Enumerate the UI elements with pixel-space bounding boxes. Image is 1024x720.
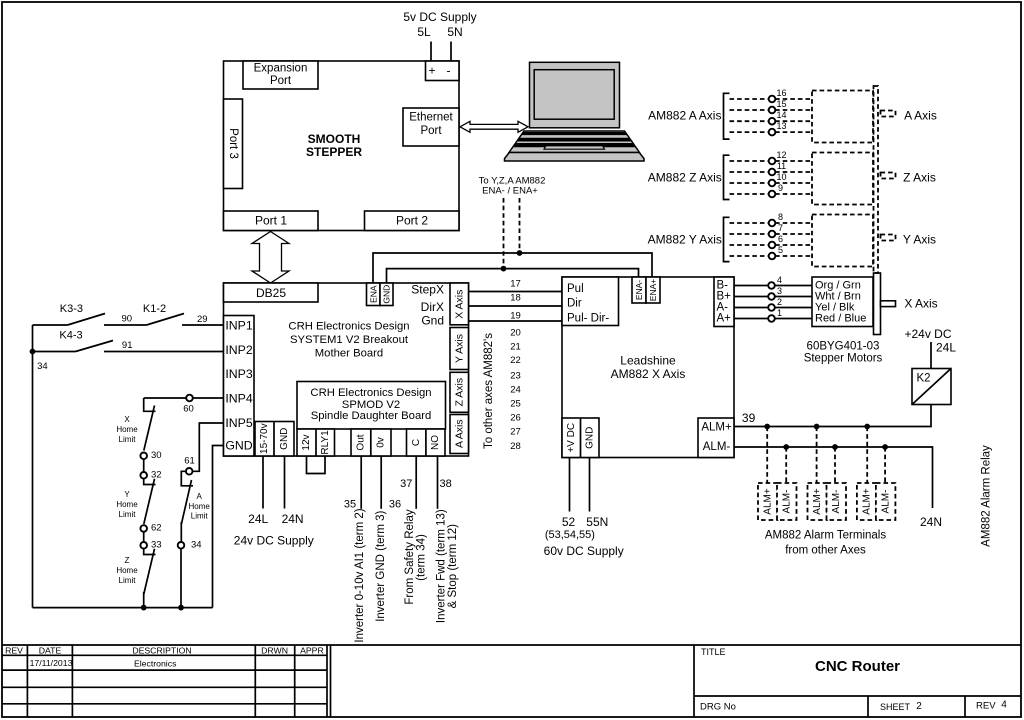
svg-text:CRH Electronics Design: CRH Electronics Design (310, 387, 431, 399)
dashed wire pin 12 (730, 160, 813, 162)
terminal C / NO (407, 429, 446, 456)
Y Axis port (450, 328, 469, 370)
svg-text:SMOOTH: SMOOTH (308, 132, 361, 146)
dashed wire pin 15 (730, 109, 813, 111)
svg-text:ALM+: ALM+ (701, 422, 732, 434)
contact 6 (769, 242, 776, 249)
leadshine AM882 X axis drive (562, 277, 734, 458)
svg-text:0v: 0v (376, 437, 387, 448)
bracket Z (724, 155, 730, 199)
wire A- (734, 307, 812, 309)
junction ALM- 1 (783, 444, 789, 450)
svg-text:INP5: INP5 (225, 416, 252, 430)
svg-text:Pul- Dir-: Pul- Dir- (567, 312, 609, 324)
svg-text:X Axis: X Axis (453, 290, 465, 319)
power terminal + - (426, 61, 460, 81)
svg-text:+: + (428, 64, 435, 78)
contact 14 (769, 118, 776, 125)
svg-text:REV: REV (976, 700, 996, 711)
DB25 double arrow (252, 232, 289, 284)
contact 5 (769, 253, 776, 260)
svg-text:-: - (447, 64, 451, 78)
dashed wire pin 6 (730, 244, 813, 246)
Z motor terminal box dashed (812, 153, 873, 205)
svg-text:24L: 24L (248, 512, 268, 526)
svg-text:K4-3: K4-3 (59, 330, 82, 342)
svg-text:Port 3: Port 3 (227, 128, 239, 159)
svg-text:33: 33 (151, 540, 162, 551)
svg-text:61: 61 (184, 456, 195, 467)
svg-text:Spindle Daughter Board: Spindle Daughter Board (311, 410, 432, 422)
svg-text:TITLE: TITLE (701, 647, 726, 657)
svg-text:ALM-: ALM- (703, 441, 731, 453)
svg-text:24N: 24N (920, 515, 942, 529)
svg-text:5N: 5N (447, 25, 462, 39)
svg-text:Pul: Pul (567, 283, 584, 295)
alarm terminal box other axis 2 (808, 483, 828, 520)
svg-text:from other Axes: from other Axes (785, 545, 866, 557)
svg-text:ENA-: ENA- (634, 280, 644, 300)
svg-text:5: 5 (778, 245, 783, 255)
wire INP5 to contact 61 (193, 423, 224, 471)
dashed wire pin 14 (730, 120, 813, 122)
contact 1 (768, 315, 775, 322)
pul dir terminal (562, 277, 619, 326)
svg-text:5v DC Supply: 5v DC Supply (403, 10, 476, 24)
svg-text:17: 17 (510, 279, 521, 290)
wire +V DC 52 (569, 458, 571, 512)
svg-text:AM882 Alarm Terminals: AM882 Alarm Terminals (765, 530, 886, 542)
contact 11 (769, 169, 776, 176)
junction ALM- 2 (832, 444, 838, 450)
svg-text:APPR: APPR (300, 646, 324, 656)
svg-text:13: 13 (776, 121, 786, 131)
svg-text:DB25: DB25 (256, 286, 286, 300)
wire Out 35 (360, 456, 362, 509)
svg-text:INP4: INP4 (225, 392, 252, 406)
Y motor shaft dashed (881, 235, 896, 241)
svg-text:SYSTEM1 V2 Breakout: SYSTEM1 V2 Breakout (290, 334, 409, 346)
wire 24L (262, 456, 264, 509)
junction ALM+ 1 (764, 424, 770, 430)
svg-text:60v DC Supply: 60v DC Supply (544, 544, 624, 558)
svg-text:Limit: Limit (119, 435, 137, 444)
svg-text:DRG No: DRG No (700, 701, 736, 712)
svg-text:24v DC Supply: 24v DC Supply (234, 534, 314, 548)
wire A+ (734, 318, 812, 320)
svg-text:INP1: INP1 (225, 319, 252, 333)
laptop (505, 62, 645, 161)
svg-text:A Axis: A Axis (453, 419, 465, 448)
svg-text:Limit: Limit (191, 511, 209, 520)
contact 34 (178, 542, 185, 549)
svg-text:23: 23 (510, 371, 521, 382)
svg-text:27: 27 (510, 427, 521, 438)
svg-text:3: 3 (777, 286, 782, 296)
svg-text:29: 29 (197, 314, 208, 325)
svg-text:Z Axis: Z Axis (453, 378, 465, 407)
svg-text:To other axes AM882's: To other axes AM882's (483, 333, 495, 449)
svg-text:38: 38 (439, 478, 451, 490)
DB25 connector (224, 283, 319, 302)
terminal ENA (367, 283, 381, 306)
wire GND return (213, 446, 224, 608)
wire left bus node 34 (32, 325, 34, 608)
svg-text:7: 7 (778, 223, 783, 233)
breakout mother board (224, 283, 469, 456)
dashed wire pin 9 (730, 193, 813, 195)
bottom bus wire (33, 607, 213, 609)
svg-text:39: 39 (742, 411, 756, 425)
svg-text:GND: GND (382, 285, 392, 304)
wire 0v 36 (380, 456, 382, 509)
svg-text:DATE: DATE (39, 646, 62, 656)
dashed wire pin 13 (730, 131, 813, 133)
svg-text:22: 22 (510, 355, 521, 366)
svg-text:AM882 Z Axis: AM882 Z Axis (648, 171, 722, 185)
wire GND 55N (589, 458, 591, 512)
svg-text:37: 37 (400, 478, 412, 490)
svg-text:RLY1: RLY1 (320, 430, 331, 455)
svg-text:STEPPER: STEPPER (306, 145, 362, 159)
svg-text:Mother Board: Mother Board (315, 348, 383, 360)
svg-text:24: 24 (510, 385, 521, 396)
wire node 29 to INP1 (182, 324, 224, 326)
svg-text:1: 1 (777, 308, 782, 318)
svg-text:CRH Electronics Design: CRH Electronics Design (288, 321, 409, 333)
svg-text:Stepper Motors: Stepper Motors (804, 353, 883, 365)
svg-text:A Axis: A Axis (904, 109, 937, 123)
contact 33 (140, 542, 147, 549)
svg-text:15-70v: 15-70v (259, 423, 270, 454)
A motor shaft dashed (881, 111, 896, 117)
dashed wire pin 5 (730, 255, 813, 257)
svg-text:& Stop (term 12): & Stop (term 12) (447, 524, 459, 609)
svg-text:Y Axis: Y Axis (903, 233, 936, 247)
svg-text:Limit: Limit (119, 510, 137, 519)
junction ALM- 3 (882, 444, 888, 450)
svg-text:Port: Port (420, 125, 442, 137)
dashed wire pin 11 (730, 171, 813, 173)
A axis group (648, 88, 937, 143)
INP terminal column (224, 316, 255, 457)
wire node 91 to INP2 (104, 351, 224, 353)
svg-text:GND: GND (584, 427, 595, 449)
contact 12 (769, 158, 776, 165)
wire ENA top run (373, 253, 652, 283)
svg-text:Ethernet: Ethernet (409, 112, 453, 124)
junction K4-3 branch (30, 349, 36, 355)
X motor terminal box (812, 277, 873, 327)
svg-text:(term 34): (term 34) (415, 534, 427, 581)
wire 24N (284, 456, 286, 509)
svg-text:4: 4 (777, 275, 782, 285)
svg-text:11: 11 (777, 161, 786, 171)
svg-text:5L: 5L (417, 25, 431, 39)
terminal ALM+ ALM- (698, 418, 734, 458)
dashed wire pin 8 (730, 222, 813, 224)
svg-text:ALM-: ALM- (782, 490, 793, 514)
wire B- (734, 285, 812, 287)
contact 3 (768, 293, 775, 300)
svg-text:24N: 24N (282, 512, 304, 526)
svg-text:Inverter Fwd (term 13): Inverter Fwd (term 13) (435, 509, 447, 623)
svg-text:17/11/2013: 17/11/2013 (30, 658, 73, 668)
svg-text:ALM-: ALM- (880, 490, 891, 514)
svg-text:+V DC: +V DC (566, 423, 577, 453)
svg-text:ALM+: ALM+ (861, 488, 872, 515)
svg-text:Port: Port (270, 75, 292, 87)
svg-text:(53,54,55): (53,54,55) (545, 529, 595, 541)
A home limit switch (181, 471, 193, 486)
svg-text:SHEET: SHEET (880, 702, 911, 712)
svg-text:AM882 X Axis: AM882 X Axis (611, 367, 686, 381)
svg-text:X Axis: X Axis (904, 297, 937, 311)
svg-text:REV: REV (5, 646, 23, 656)
contact 4 (768, 282, 775, 289)
contact 15 (769, 107, 776, 114)
contact 9 (769, 191, 776, 198)
junction ENA- (501, 266, 507, 272)
svg-text:2: 2 (777, 297, 782, 307)
svg-text:28: 28 (510, 441, 521, 452)
terminal B- B+ A- A+ (714, 277, 734, 327)
svg-text:91: 91 (122, 340, 133, 351)
svg-text:19: 19 (510, 311, 521, 322)
svg-text:Dir: Dir (567, 298, 582, 310)
svg-text:ALM+: ALM+ (812, 488, 823, 515)
X motor shaft (881, 301, 896, 307)
port 1 (224, 211, 319, 231)
spindle daughter board (297, 382, 446, 430)
wire 34 to bottom bus (180, 548, 182, 607)
contact 13 (769, 129, 776, 136)
wire A blade to contact 34 (180, 522, 182, 542)
svg-text:Port 1: Port 1 (255, 214, 287, 228)
alarm terminal box other axis 3 (857, 483, 877, 520)
switch K3-3 (33, 324, 68, 326)
svg-text:A+: A+ (717, 313, 732, 325)
svg-text:90: 90 (122, 314, 133, 325)
X home limit switch (144, 398, 156, 411)
ethernet port (403, 108, 459, 146)
terminal 12v / RLY1 (297, 429, 335, 456)
contact 2 (768, 304, 775, 311)
wire node 90 (104, 324, 147, 326)
svg-text:X: X (124, 415, 130, 424)
svg-text:NO: NO (430, 435, 441, 450)
svg-text:55N: 55N (586, 515, 608, 529)
svg-text:Z: Z (125, 556, 130, 565)
svg-text:Expansion: Expansion (254, 63, 308, 75)
contact 16 (769, 96, 776, 103)
terminal ENA- (632, 277, 646, 303)
Z motor shaft dashed (881, 173, 896, 179)
junction ALM+ 3 (864, 424, 870, 430)
dashed wire pin 10 (730, 182, 813, 184)
svg-text:10: 10 (776, 172, 786, 182)
svg-text:Limit: Limit (119, 576, 137, 585)
svg-text:Electronics: Electronics (134, 658, 177, 668)
svg-text:52: 52 (562, 515, 576, 529)
svg-text:K1-2: K1-2 (143, 303, 166, 315)
svg-text:Z Axis: Z Axis (903, 171, 936, 185)
svg-text:34: 34 (191, 540, 202, 551)
dashed wire pin 7 (730, 233, 813, 235)
title block (2, 645, 1021, 717)
dashed wire pin 16 (730, 98, 813, 100)
wire StepX 17 (469, 291, 563, 293)
expansion port (243, 61, 318, 89)
bracket A (724, 93, 730, 139)
svg-text:24L: 24L (936, 341, 956, 355)
Z Axis port (450, 372, 469, 412)
contact 7 (769, 231, 776, 238)
alarm terminal box other axis 1 (758, 483, 778, 520)
Z axis group (648, 150, 936, 205)
smooth stepper board (224, 61, 460, 231)
terminal +V DC / GND (562, 418, 599, 458)
svg-text:Home: Home (116, 500, 138, 509)
terminal Out / 0v (351, 429, 391, 456)
dashed drop ALM+ 3 (866, 427, 868, 484)
svg-text:25: 25 (510, 399, 521, 410)
terminal GND (380, 283, 393, 306)
wire 30-32 (143, 459, 145, 472)
svg-text:CNC Router: CNC Router (815, 658, 900, 675)
wire ALM+ bus (734, 405, 931, 427)
laptop to ethernet double arrow (460, 121, 528, 132)
svg-text:Leadshine: Leadshine (620, 354, 676, 368)
svg-text:K2: K2 (917, 373, 931, 385)
svg-text:DESCRIPTION: DESCRIPTION (132, 646, 191, 656)
svg-text:18: 18 (510, 293, 521, 304)
motor mounting strip dashed (874, 86, 879, 273)
svg-text:4: 4 (1001, 700, 1007, 711)
junction A chain (178, 605, 184, 611)
wire INP4 with contact 60 (144, 397, 224, 399)
wire NO 38 (437, 456, 439, 509)
svg-text:INP2: INP2 (225, 343, 252, 357)
switch K4-3 (33, 351, 76, 353)
junction Z chain (141, 605, 147, 611)
svg-text:+24v DC: +24v DC (904, 327, 951, 341)
dashed drop ALM- 1 (785, 447, 787, 483)
svg-text:AM882 Alarm Relay: AM882 Alarm Relay (981, 445, 993, 547)
svg-text:INP3: INP3 (225, 367, 252, 381)
wire ALM- bus (734, 447, 933, 508)
wire C 37 (415, 456, 417, 509)
svg-text:Out: Out (356, 434, 367, 450)
Y motor terminal box dashed (812, 215, 873, 267)
svg-text:ENA: ENA (368, 285, 378, 303)
svg-text:9: 9 (778, 183, 783, 193)
dashed drop ALM+ 2 (816, 427, 818, 484)
svg-text:12v: 12v (301, 434, 312, 450)
wire 5L (430, 42, 432, 62)
contact 30 (140, 453, 147, 460)
Y home limit switch (144, 478, 156, 484)
svg-text:8: 8 (778, 212, 783, 222)
wire Z to bottom bus (143, 592, 145, 608)
A motor terminal box dashed (812, 91, 873, 143)
port 3 (224, 99, 243, 189)
svg-text:62: 62 (151, 523, 162, 534)
Y axis group (648, 212, 936, 267)
svg-text:A: A (197, 492, 203, 501)
relay K2 (912, 369, 951, 405)
junction ENA+ (517, 250, 523, 256)
dashed drop ALM+ 1 (766, 427, 768, 484)
wire 12v-RLY1 link (307, 456, 326, 474)
wire B+ (734, 296, 812, 298)
svg-text:From Safety Relay: From Safety Relay (404, 509, 416, 604)
svg-text:GND: GND (225, 439, 252, 453)
svg-text:12: 12 (776, 150, 786, 160)
switch K1-2 (147, 314, 185, 326)
svg-text:K3-3: K3-3 (60, 303, 83, 315)
bracket Y (724, 217, 730, 261)
svg-text:32: 32 (151, 470, 162, 481)
svg-text:ENA+: ENA+ (648, 279, 658, 301)
svg-text:Port 2: Port 2 (396, 214, 428, 228)
contact 32 (140, 472, 147, 479)
wire DirX 18 (469, 305, 563, 307)
X motor body (874, 273, 881, 335)
svg-text:Home: Home (116, 566, 138, 575)
svg-text:Home: Home (116, 425, 138, 434)
dashed drop ALM- 3 (884, 447, 886, 483)
wire 5N (450, 42, 452, 62)
X Axis port (450, 283, 469, 325)
dashed drop ALM- 2 (834, 447, 836, 483)
svg-text:21: 21 (510, 342, 521, 353)
svg-text:Gnd: Gnd (421, 314, 444, 328)
wire 62-33 (143, 532, 145, 543)
svg-text:15: 15 (776, 99, 786, 109)
svg-text:ALM+: ALM+ (763, 488, 774, 515)
svg-text:6: 6 (778, 234, 783, 244)
wire 24L to K2 (930, 342, 932, 369)
svg-text:14: 14 (776, 110, 786, 120)
svg-text:DirX: DirX (421, 300, 444, 314)
svg-text:20: 20 (510, 328, 521, 339)
contact 10 (769, 180, 776, 187)
svg-text:DRWN: DRWN (261, 646, 288, 656)
svg-text:Y: Y (124, 490, 130, 499)
svg-text:Inverter GND (term 3): Inverter GND (term 3) (375, 510, 387, 621)
wire Gnd 19 (469, 320, 563, 322)
A Axis port (450, 415, 469, 454)
svg-text:Red / Blue: Red / Blue (815, 313, 866, 325)
svg-text:ENA- / ENA+: ENA- / ENA+ (482, 186, 538, 197)
svg-text:36: 36 (389, 498, 401, 510)
svg-text:AM882 Y Axis: AM882 Y Axis (648, 233, 722, 247)
svg-text:AM882 A Axis: AM882 A Axis (648, 109, 721, 123)
svg-text:Y Axis: Y Axis (453, 334, 465, 363)
wire GND second run (387, 269, 639, 283)
contact 62 (140, 525, 147, 532)
svg-text:Home: Home (189, 502, 211, 511)
port 2 (365, 211, 460, 231)
terminal 15-70v / GND (255, 422, 294, 457)
dashed wire ENA- to other axes (503, 198, 505, 269)
svg-text:Inverter 0-10v AI1 (term 2): Inverter 0-10v AI1 (term 2) (354, 508, 366, 642)
svg-text:26: 26 (510, 413, 521, 424)
svg-text:34: 34 (37, 361, 48, 372)
junction ALM+ 2 (814, 424, 820, 430)
svg-text:60BYG401-03: 60BYG401-03 (807, 340, 880, 352)
